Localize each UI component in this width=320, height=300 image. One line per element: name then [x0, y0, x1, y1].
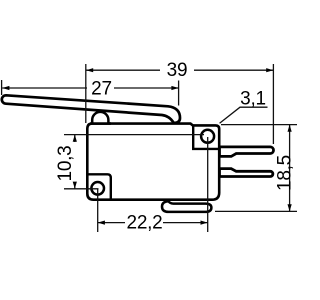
bottom-left mounting hole circle — [91, 182, 104, 195]
plunger button bump — [92, 112, 108, 124]
dim 22,2: right extension line (from top hole center down) — [207, 137, 209, 232]
dim 39: right extension line — [272, 64, 274, 144]
dim 39: left arrow — [86, 68, 93, 72]
dim 27: right arrow — [171, 86, 178, 90]
svg-text:18,5: 18,5 — [274, 155, 295, 191]
dim 39: right arrow — [266, 68, 273, 72]
dim 39: left extension line — [85, 64, 87, 123]
svg-text:27: 27 — [91, 78, 112, 99]
svg-text:3,1: 3,1 — [240, 88, 266, 109]
bottom common terminal (bent lug) — [162, 201, 211, 212]
svg-text:39: 39 — [167, 60, 188, 81]
dim 18,5: bottom arrow — [288, 204, 292, 211]
dim 39: dimension line — [86, 69, 160, 71]
lever arm with rolled ends — [2, 95, 180, 123]
dim 18,5: top arrow — [288, 125, 292, 132]
body top edge under bump — [90, 122, 111, 125]
dim 27: left arrow — [2, 86, 9, 90]
svg-text:22,2: 22,2 — [127, 213, 163, 234]
dim 10,3: bottom extension line — [64, 188, 99, 190]
upper side terminal — [220, 147, 274, 157]
dim 27: left extension tick — [1, 80, 3, 95]
dim 18,5: bottom extension line — [215, 210, 297, 212]
top-right mounting boss box — [193, 126, 219, 148]
lower side terminal — [220, 169, 273, 177]
dim 10,3: top arrow — [73, 135, 77, 142]
dim 22,2: right arrow — [201, 221, 208, 225]
bottom-left mounting boss box — [87, 174, 111, 199]
dim 22,2: left arrow — [98, 221, 105, 225]
dim 3,1: leader line — [220, 107, 268, 123]
dim 22,2: left extension line (from hole center down) — [97, 189, 99, 232]
switch body outline — [87, 124, 219, 200]
dim 18,5: dimension line — [289, 125, 291, 212]
dim 10,3: top extension line (through hole center) — [64, 134, 204, 136]
svg-text:10,3: 10,3 — [55, 146, 76, 182]
dim 10,3: bottom arrow — [73, 182, 77, 189]
top-right mounting hole circle — [201, 130, 214, 143]
dim 10,3: dimension line — [74, 135, 76, 142]
dim 27: dimension line — [2, 87, 87, 89]
dim 27: right extension line — [178, 81, 180, 106]
dim 22,2: dimension line — [98, 222, 125, 224]
dim 18,5: top extension line — [221, 124, 297, 126]
